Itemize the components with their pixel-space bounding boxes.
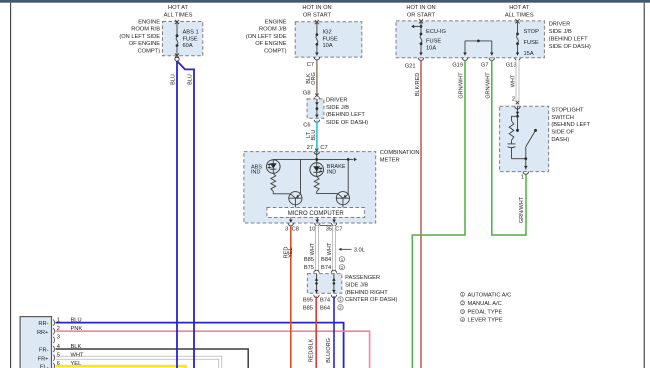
- wire BLK/RED (G21 to bottom): [420, 60, 422, 368]
- svg-text:CENTER OF DASH): CENTER OF DASH): [345, 297, 397, 303]
- pin 1 of stoplight switch: [521, 175, 524, 181]
- note circled 2 (manual A/C): [339, 265, 344, 271]
- svg-text:ALL TIMES: ALL TIMES: [505, 13, 534, 19]
- svg-text:C6: C6: [303, 123, 310, 129]
- wire capacitor to exit node: [512, 158, 526, 160]
- svg-text:SIDE J/B: SIDE J/B: [326, 105, 349, 111]
- svg-text:1: 1: [461, 292, 464, 298]
- wire GRN/WHT (G19 down, left, to bottom): [412, 60, 465, 368]
- label WHT pin10 wire: [310, 242, 316, 255]
- wire RED/YEL (meter pin 3 to bottom): [290, 226, 292, 368]
- wire resistor to transistor Q2: [317, 191, 338, 193]
- svg-text:IG2: IG2: [323, 30, 332, 36]
- pin C7 of ENGINE ROOM J/B: [307, 62, 314, 68]
- label LT BLU: [306, 130, 317, 141]
- svg-text:BLK: BLK: [71, 344, 82, 350]
- label ABS IND: [251, 164, 262, 175]
- svg-text:OF ENGINE: OF ENGINE: [255, 41, 286, 47]
- resistor BRAKE indicator: [314, 176, 319, 191]
- svg-text:OR START: OR START: [407, 13, 436, 19]
- svg-text:C8: C8: [292, 226, 299, 232]
- label STOPLIGHT SWITCH (BEHIND LEFT SIDE OF DASH): [551, 107, 590, 143]
- note circled 1 (automatic A/C): [339, 257, 344, 263]
- svg-text:FR+: FR+: [38, 356, 50, 362]
- svg-text:(BEHIND LEFT: (BEHIND LEFT: [551, 122, 590, 128]
- svg-text:WHT: WHT: [310, 242, 316, 255]
- svg-text:C7: C7: [307, 62, 314, 68]
- pin terminal arcs: [53, 320, 54, 368]
- wire WHT (pin 5 FR+ to right then down): [56, 358, 221, 368]
- switch lever: [526, 130, 536, 146]
- pin labels 3 C8 / 10 / 35 C7: [285, 226, 342, 232]
- junction block ENGINE ROOM R/B: [163, 22, 203, 56]
- wire BLK (pin 4 FR- to right then down): [56, 349, 249, 368]
- pin G19: [452, 63, 463, 69]
- label GRN/WHT G19 wire: [459, 72, 465, 99]
- svg-text:YEL: YEL: [71, 361, 82, 367]
- label BLU/ORG: [326, 338, 332, 363]
- svg-text:RR-: RR-: [38, 321, 48, 327]
- label HOT IN ON OR START (fuse ECU-IG): [406, 5, 435, 19]
- svg-text:BLK/RED: BLK/RED: [415, 73, 421, 97]
- svg-text:(BEHIND LEFT: (BEHIND LEFT: [549, 36, 588, 42]
- fuse STOP 15A: [515, 19, 520, 60]
- svg-text:PEDAL TYPE: PEDAL TYPE: [468, 310, 503, 316]
- legend circled 2 MANUAL A/C: [460, 301, 501, 307]
- svg-text:10A: 10A: [426, 45, 436, 51]
- wire switch exit: [523, 159, 528, 175]
- svg-text:BLU: BLU: [71, 317, 82, 323]
- svg-text:ABS 1: ABS 1: [183, 30, 199, 36]
- label DRIVER SIDE J/B (BEHIND LEFT SIDE OF DASH): [326, 98, 368, 126]
- svg-text:(ON LEFT SIDE: (ON LEFT SIDE: [246, 34, 287, 40]
- svg-text:G8: G8: [303, 91, 311, 97]
- svg-text:15A: 15A: [524, 51, 534, 57]
- svg-text:3.0L: 3.0L: [354, 248, 365, 254]
- svg-text:ENGINE: ENGINE: [265, 19, 287, 25]
- label RED/BLK: [309, 338, 315, 362]
- note 3.0L arrow: [339, 248, 365, 254]
- wire LT BLU (driver J/B to combination meter): [316, 120, 318, 149]
- svg-text:3: 3: [285, 226, 288, 232]
- wire BLK/ORG (IG2 fuse to G8): [316, 60, 318, 95]
- stoplight switch box: [500, 106, 549, 171]
- label BLK/RED: [415, 73, 421, 97]
- resistor ABS indicator: [271, 173, 276, 191]
- svg-text:2: 2: [461, 301, 464, 307]
- pin numbers 1-6: [57, 317, 60, 367]
- svg-text:DRIVER: DRIVER: [326, 98, 348, 104]
- pin labels B75 B74 above passenger J/B: [304, 265, 331, 271]
- node G8: [303, 91, 320, 101]
- svg-text:2: 2: [512, 97, 515, 103]
- label GRN/WHT stoplight wire: [519, 196, 525, 223]
- wire lever to exit: [525, 146, 527, 158]
- junction block ENGINE ROOM J/B: [295, 22, 362, 57]
- wire BLU (left, ABS 1 fuse to bottom): [176, 61, 178, 368]
- svg-text:5: 5: [57, 353, 60, 359]
- svg-text:1: 1: [521, 175, 524, 181]
- svg-text:1: 1: [57, 317, 60, 323]
- svg-text:FL-: FL-: [40, 364, 49, 368]
- svg-text:60A: 60A: [183, 43, 193, 49]
- wire Q2 collector to rail: [347, 159, 349, 194]
- svg-text:GRN/WHT: GRN/WHT: [486, 72, 492, 99]
- indicator lamp BRAKE IND (LED): [310, 163, 324, 177]
- svg-text:G13: G13: [506, 63, 517, 69]
- pin labels B85 B84 above passenger J/B: [304, 257, 331, 263]
- svg-text:RR+: RR+: [37, 330, 49, 336]
- svg-text:G19: G19: [452, 63, 463, 69]
- label BRAKE IND: [327, 164, 346, 175]
- svg-text:STOPLIGHT: STOPLIGHT: [551, 107, 584, 113]
- label ENGINE ROOM R/B location: [119, 19, 160, 54]
- fuse ABS 1 60A: [175, 20, 179, 61]
- wire GRN/WHT (stoplight switch to junction): [525, 175, 527, 236]
- label WHT G13 wire: [510, 74, 516, 87]
- wire RED/BLK (passenger J/B to bottom): [315, 296, 317, 368]
- value label STOP FUSE 15A: [524, 29, 540, 57]
- wire micro computer pin 35 stub: [331, 218, 336, 226]
- wire name labels BLU PNK BLK WHT YEL: [71, 317, 84, 367]
- capacitor stoplight switch: [508, 140, 516, 159]
- label GRN/WHT G7 wire: [486, 72, 492, 99]
- legend circled 4 LEVER TYPE: [460, 317, 502, 323]
- connector PASSENGER SIDE J/B pass-throughs: [307, 270, 341, 297]
- svg-text:PASSENGER: PASSENGER: [345, 275, 380, 281]
- svg-text:BLU/ORG: BLU/ORG: [326, 338, 332, 363]
- svg-text:B84: B84: [321, 257, 331, 263]
- wire GRN/WHT (G7 down then right to stoplight switch wire): [492, 60, 526, 235]
- connector DRIVER SIDE J/B pass-through: [307, 99, 324, 123]
- svg-text:C7: C7: [320, 145, 327, 151]
- connector C7 bracket between pins 10 and 35: [320, 225, 331, 227]
- svg-text:COMPT): COMPT): [138, 49, 161, 55]
- svg-text:FR-: FR-: [39, 348, 49, 354]
- combination meter box: [244, 152, 376, 223]
- transistor Q1 (ABS): [289, 192, 302, 208]
- svg-text:PNK: PNK: [71, 326, 83, 332]
- svg-text:BLU: BLU: [188, 74, 194, 85]
- svg-text:IND: IND: [251, 170, 261, 176]
- svg-text:DASH): DASH): [551, 137, 569, 143]
- svg-text:ROOM J/B: ROOM J/B: [259, 27, 287, 33]
- svg-text:RED/BLK: RED/BLK: [309, 338, 315, 362]
- switch contact D: [534, 129, 537, 132]
- svg-text:G21: G21: [405, 63, 416, 69]
- wire BLU/ORG (passenger J/B to bottom): [333, 296, 335, 368]
- svg-text:35: 35: [326, 226, 332, 232]
- wire to resistor branch: [512, 116, 518, 120]
- svg-text:OR START: OR START: [303, 13, 332, 19]
- pin G7: [481, 63, 489, 69]
- svg-text:WHT: WHT: [510, 74, 516, 87]
- transistor Q2 (BRAKE): [336, 192, 349, 208]
- svg-text:G7: G7: [481, 63, 489, 69]
- svg-text:ECU-IG: ECU-IG: [426, 29, 446, 35]
- value label ABS 1 FUSE 60A: [183, 30, 199, 50]
- svg-text:WHT: WHT: [71, 353, 84, 359]
- node switch junction A: [516, 115, 519, 118]
- svg-text:(BEHIND RIGHT: (BEHIND RIGHT: [345, 290, 388, 296]
- label COMBINATION METER: [380, 150, 420, 164]
- svg-text:C7: C7: [335, 226, 342, 232]
- pin G21: [405, 63, 416, 69]
- svg-text:B85: B85: [304, 257, 314, 263]
- label PASSENGER SIDE J/B (BEHIND RIGHT CENTER OF DASH): [345, 275, 397, 303]
- svg-text:COMBINATION: COMBINATION: [380, 150, 420, 156]
- svg-text:4: 4: [57, 344, 60, 350]
- wire WHT (meter pin 35 to passenger J/B): [332, 226, 336, 272]
- pin G13: [506, 63, 517, 69]
- svg-text:27: 27: [307, 145, 313, 151]
- wire WHT (meter pin 10 to passenger J/B): [315, 226, 319, 272]
- svg-text:2: 2: [341, 265, 344, 271]
- svg-text:STOP: STOP: [524, 29, 540, 35]
- svg-text:SIDE OF: SIDE OF: [551, 130, 574, 136]
- node rail-entry junction: [315, 158, 318, 161]
- fuse ECU-IG 10A: [411, 19, 424, 60]
- label HOT AT ALL TIMES (fuse ABS 1): [164, 5, 193, 19]
- svg-text:B74: B74: [321, 265, 331, 271]
- wire meter entry: [314, 152, 319, 163]
- svg-text:2: 2: [57, 326, 60, 332]
- wire PNK (pin 2 RR+ to right then down): [56, 331, 370, 368]
- node rail-right junction: [347, 158, 350, 161]
- switch contact stub: [516, 116, 519, 132]
- indicator lamp ABS IND (LED): [267, 159, 281, 173]
- wire WHT (G13 to stoplight switch): [516, 60, 520, 102]
- svg-text:ALL TIMES: ALL TIMES: [164, 13, 193, 19]
- svg-text:B64: B64: [320, 305, 330, 311]
- pin C6 of DRIVER SIDE J/B: [303, 123, 310, 129]
- svg-text:IND: IND: [327, 170, 337, 176]
- label HOT AT ALL TIMES (fuse STOP): [505, 5, 534, 19]
- node switch exit B: [524, 157, 527, 160]
- svg-text:(BEHIND LEFT: (BEHIND LEFT: [326, 112, 365, 118]
- wire BLU (pin 1 RR- to right then down): [56, 323, 344, 368]
- svg-text:4: 4: [461, 317, 464, 323]
- wire micro computer pin 3 stub: [288, 218, 293, 226]
- svg-text:SIDE OF DASH): SIDE OF DASH): [326, 120, 368, 126]
- svg-text:SIDE J/B: SIDE J/B: [345, 282, 368, 288]
- svg-text:METER: METER: [380, 157, 400, 163]
- svg-text:LEVER TYPE: LEVER TYPE: [468, 318, 503, 324]
- svg-text:SWITCH: SWITCH: [551, 115, 573, 121]
- svg-text:SIDE J/B: SIDE J/B: [549, 29, 572, 35]
- svg-text:FUSE: FUSE: [426, 38, 441, 44]
- svg-text:B75: B75: [304, 265, 314, 271]
- legend circled 1 AUTOMATIC A/C: [460, 292, 511, 298]
- junction block DRIVER SIDE J/B (fuses): [396, 21, 544, 58]
- svg-text:B95: B95: [303, 297, 313, 303]
- value label IG2 FUSE 10A: [323, 30, 338, 50]
- svg-text:B74: B74: [320, 297, 330, 303]
- svg-text:BLU: BLU: [311, 130, 317, 141]
- wire meter top rail: [273, 158, 348, 160]
- svg-text:ORG: ORG: [311, 72, 317, 85]
- svg-text:DRIVER: DRIVER: [549, 22, 571, 28]
- connector ABS actuator block: [20, 317, 51, 368]
- svg-text:YEL: YEL: [288, 247, 294, 257]
- pin 2 of stoplight switch: [512, 97, 519, 105]
- svg-text:COMPT): COMPT): [264, 49, 287, 55]
- pin labels B95 B74 below passenger J/B: [303, 297, 330, 303]
- svg-text:1: 1: [341, 257, 344, 263]
- svg-text:GRN/WHT: GRN/WHT: [519, 196, 525, 223]
- svg-text:10A: 10A: [323, 43, 333, 49]
- pin name labels RR- RR+ FR- FR+ FL-: [37, 321, 49, 368]
- micro computer: [267, 208, 365, 218]
- svg-text:HOT IN ON: HOT IN ON: [302, 5, 331, 11]
- svg-text:SIDE OF DASH): SIDE OF DASH): [549, 44, 591, 50]
- label BLK ORG: [306, 72, 317, 85]
- svg-text:AUTOMATIC A/C: AUTOMATIC A/C: [468, 292, 512, 298]
- svg-text:ENGINE: ENGINE: [138, 19, 160, 25]
- label WHT pin35 wire: [327, 242, 333, 255]
- svg-text:FUSE: FUSE: [183, 36, 198, 42]
- wire switch entry: [515, 106, 520, 116]
- pin 27 C7 of combination meter: [307, 145, 328, 152]
- wire G19-G7 branch inside J/B: [462, 40, 494, 61]
- svg-text:B85: B85: [303, 305, 313, 311]
- label HOT IN ON OR START (fuse IG2): [302, 5, 331, 19]
- svg-text:10: 10: [309, 226, 315, 232]
- note circled 2 below J/B: [338, 305, 343, 311]
- fuse IG2 10A: [314, 20, 319, 60]
- svg-text:FUSE: FUSE: [524, 40, 539, 46]
- svg-text:MICRO COMPUTER: MICRO COMPUTER: [288, 211, 345, 217]
- svg-text:3: 3: [57, 335, 60, 341]
- resistor stoplight switch: [509, 121, 514, 141]
- wire resistor to transistor Q1: [273, 191, 290, 193]
- wire Q1 collector to rail: [300, 159, 302, 194]
- wire micro computer pin 10 stub: [315, 218, 320, 226]
- svg-text:OF ENGINE: OF ENGINE: [129, 41, 160, 47]
- label RED/YEL: [283, 247, 293, 259]
- svg-text:1: 1: [339, 297, 342, 303]
- svg-text:HOT AT: HOT AT: [168, 5, 189, 11]
- svg-text:FUSE: FUSE: [323, 36, 338, 42]
- note circled 1 below J/B: [338, 297, 343, 303]
- value label ECU-IG FUSE 10A: [426, 29, 446, 51]
- svg-text:3: 3: [461, 309, 464, 315]
- legend circled 3 PEDAL TYPE: [460, 309, 502, 315]
- wire BLU (right branch, ABS 1 fuse to bottom): [177, 61, 194, 368]
- svg-text:HOT IN ON: HOT IN ON: [406, 5, 435, 11]
- pin labels B85 B64 below passenger J/B: [303, 305, 330, 311]
- svg-text:WHT: WHT: [327, 242, 333, 255]
- wire YEL (pin 6 FL- to right then down): [56, 366, 186, 368]
- wire rail arrow to other circuits: [348, 158, 357, 162]
- svg-text:HOT AT: HOT AT: [509, 5, 530, 11]
- svg-text:6: 6: [57, 361, 60, 367]
- svg-text:ROOM R/B: ROOM R/B: [131, 27, 160, 33]
- label BLU left wire: [171, 74, 177, 85]
- label ENGINE ROOM J/B location: [246, 19, 287, 54]
- label BLU right wire: [188, 74, 194, 85]
- svg-text:MANUAL A/C: MANUAL A/C: [468, 301, 502, 307]
- svg-text:GRN/WHT: GRN/WHT: [459, 72, 465, 99]
- label DRIVER SIDE J/B (BEHIND LEFT SIDE OF DASH): [549, 22, 591, 50]
- svg-text:2: 2: [339, 305, 342, 311]
- svg-text:BLU: BLU: [171, 74, 177, 85]
- svg-text:(ON LEFT SIDE: (ON LEFT SIDE: [119, 34, 160, 40]
